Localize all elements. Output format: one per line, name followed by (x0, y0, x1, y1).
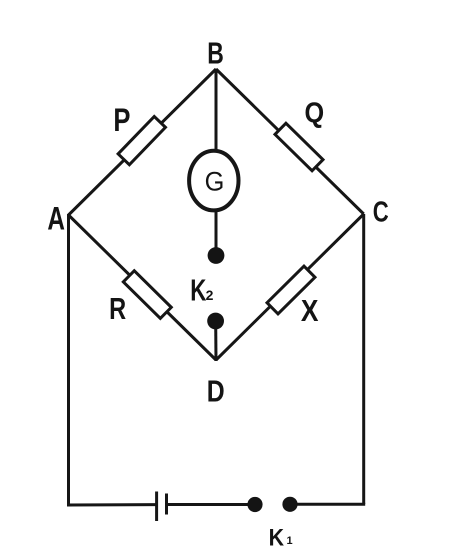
svg-text:R: R (109, 291, 126, 326)
resistor X (267, 266, 315, 314)
svg-text:1: 1 (286, 535, 292, 547)
svg-text:B: B (207, 35, 224, 70)
resistor P (118, 116, 165, 164)
wire C down right side (362, 214, 365, 504)
key K2 bottom contact dot (207, 313, 224, 330)
wire B-C (216, 69, 364, 214)
svg-text:Q: Q (304, 96, 324, 129)
battery cell (155, 492, 158, 522)
svg-text:D: D (207, 374, 225, 408)
svg-text:C: C (373, 197, 389, 229)
resistor Q (275, 123, 323, 171)
wire A-D (69, 215, 217, 360)
wire K1 right contact to bottom right corner (290, 503, 365, 506)
wire A down left side (67, 214, 70, 505)
galvanometer G (189, 151, 238, 211)
wire B to galvanometer (215, 69, 218, 155)
wire bottom left to battery (67, 503, 156, 506)
svg-text:G: G (205, 166, 225, 197)
svg-text:A: A (47, 201, 65, 237)
wire A-B (69, 69, 217, 215)
svg-text:2: 2 (206, 287, 214, 303)
resistor R (123, 271, 171, 319)
svg-text:K: K (269, 523, 285, 550)
wire K2 bottom contact to D (214, 324, 217, 361)
wire C-D (216, 214, 364, 360)
svg-text:P: P (113, 103, 130, 138)
key K1 right contact dot (282, 497, 297, 512)
svg-text:X: X (301, 294, 319, 328)
wire galvanometer to key K2 top contact (215, 208, 218, 252)
svg-text:K: K (190, 273, 207, 307)
wire battery to K1 left contact (167, 503, 255, 506)
key K2 top contact dot (208, 247, 225, 264)
key K1 left contact dot (247, 497, 262, 512)
